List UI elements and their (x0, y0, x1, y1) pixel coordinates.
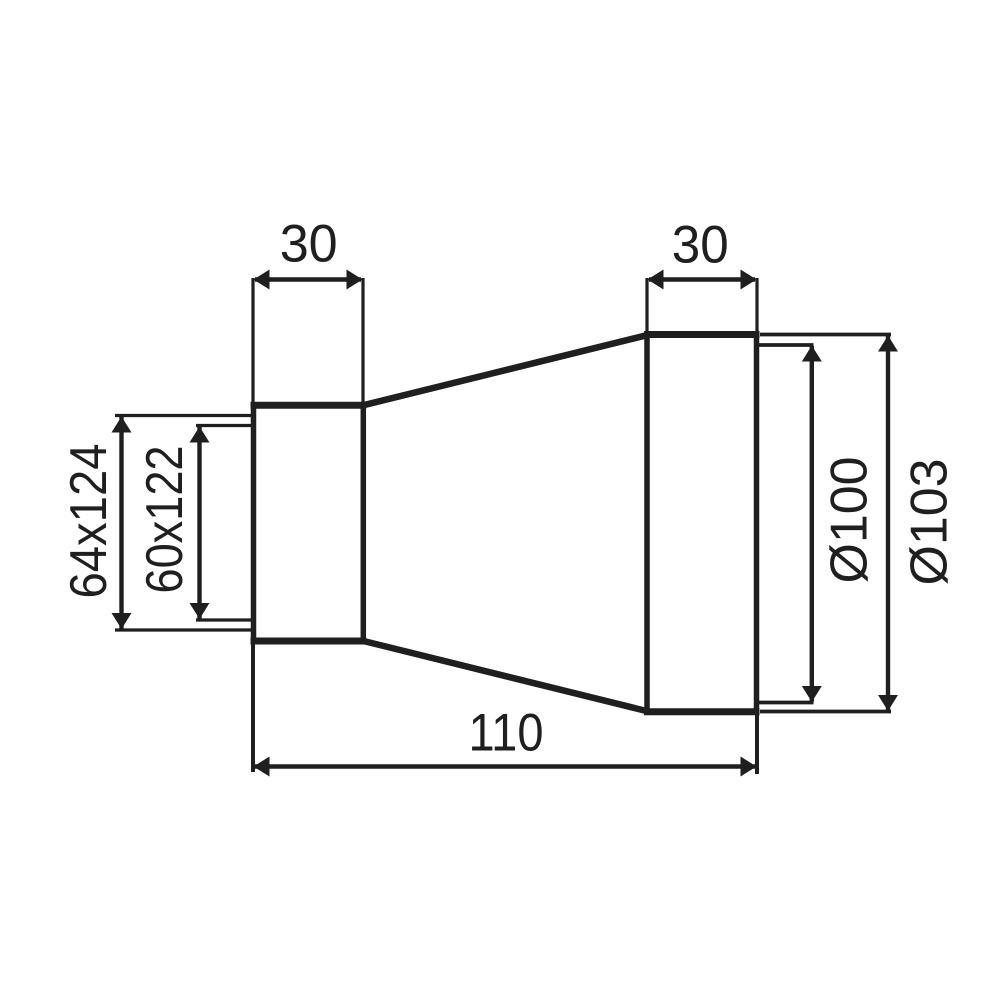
svg-text:Ø103: Ø103 (901, 459, 959, 586)
svg-text:30: 30 (672, 216, 729, 275)
svg-text:110: 110 (469, 704, 544, 763)
svg-text:60x122: 60x122 (136, 446, 194, 594)
svg-text:64x124: 64x124 (60, 444, 118, 599)
svg-text:Ø100: Ø100 (821, 457, 879, 584)
svg-text:30: 30 (280, 215, 338, 274)
